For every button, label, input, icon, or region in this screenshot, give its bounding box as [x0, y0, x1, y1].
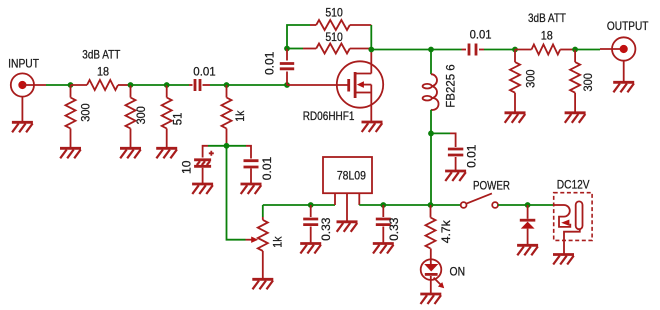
svg-text:300: 300 — [134, 106, 148, 124]
svg-text:FB225 6: FB225 6 — [444, 64, 458, 108]
svg-text:18: 18 — [97, 65, 109, 79]
svg-text:0.01: 0.01 — [464, 144, 478, 168]
svg-text:18: 18 — [541, 29, 553, 43]
svg-text:POWER: POWER — [473, 178, 510, 192]
svg-text:3dB ATT: 3dB ATT — [82, 48, 121, 62]
svg-text:78L09: 78L09 — [337, 169, 366, 183]
svg-text:300: 300 — [581, 73, 595, 92]
svg-text:0.01: 0.01 — [260, 156, 274, 180]
svg-text:INPUT: INPUT — [8, 56, 39, 70]
svg-text:10: 10 — [180, 160, 194, 174]
svg-text:0.01: 0.01 — [193, 65, 216, 79]
svg-text:0.33: 0.33 — [387, 217, 401, 241]
svg-text:1k: 1k — [270, 236, 284, 248]
svg-text:0.33: 0.33 — [319, 217, 333, 241]
svg-text:0.01: 0.01 — [263, 51, 277, 75]
svg-text:51: 51 — [170, 112, 184, 125]
svg-text:ON: ON — [450, 264, 466, 278]
svg-text:OUTPUT: OUTPUT — [607, 19, 649, 33]
svg-text:4.7k: 4.7k — [439, 219, 453, 243]
svg-text:300: 300 — [78, 103, 92, 122]
svg-text:510: 510 — [325, 30, 343, 44]
svg-text:DC12V: DC12V — [557, 178, 590, 192]
svg-text:510: 510 — [325, 5, 343, 19]
svg-text:1k: 1k — [233, 110, 247, 122]
svg-text:RD06HHF1: RD06HHF1 — [303, 109, 355, 123]
svg-text:0.01: 0.01 — [470, 27, 492, 41]
svg-text:300: 300 — [524, 69, 538, 88]
svg-text:3dB ATT: 3dB ATT — [528, 11, 567, 25]
